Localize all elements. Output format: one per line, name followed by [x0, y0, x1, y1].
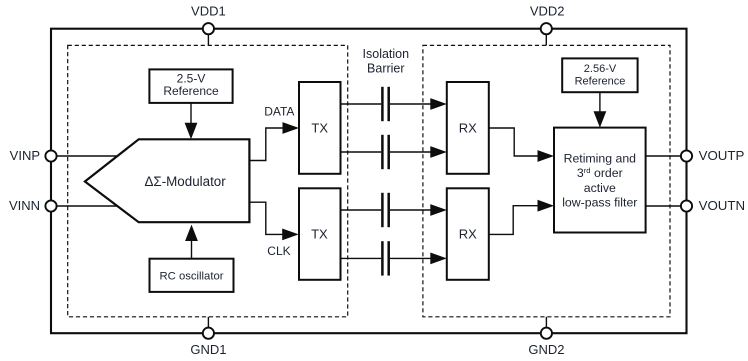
block: 2.5-V reference U2	[149, 69, 232, 103]
wire channel 2 left segment	[341, 151, 382, 153]
wire GND2 stub	[545, 317, 547, 327]
svg-text:VDD1: VDD1	[191, 4, 226, 19]
label: Isolation Barrier	[363, 47, 410, 76]
wire channel 2 right segment (arrow into RX1)	[390, 146, 447, 158]
wire reference to modulator (arrow down)	[185, 103, 198, 139]
block: RC oscillator U3	[150, 259, 234, 292]
block: receiver RX2	[447, 188, 489, 279]
svg-text:CLK: CLK	[267, 244, 290, 258]
pin VOUTP	[681, 148, 745, 163]
wire channel 4 right segment (arrow into RX2)	[390, 253, 447, 265]
wire RX2 to filter (arrow)	[489, 200, 554, 235]
pin VDD1	[191, 4, 226, 35]
pin VINN	[9, 198, 57, 213]
block: transmitter TX2	[299, 188, 341, 279]
wire channel 1 right segment (arrow into RX1)	[390, 98, 447, 110]
wire VDD1 stub	[207, 35, 209, 46]
svg-text:Retiming and: Retiming and	[564, 152, 637, 166]
block: transmitter TX1	[299, 82, 341, 174]
svg-text:Reference: Reference	[163, 84, 219, 98]
svg-text:VINP: VINP	[10, 148, 40, 163]
high-side isolation region (left dashed boundary)	[68, 45, 348, 316]
svg-text:TX: TX	[311, 227, 328, 242]
svg-text:low-pass filter: low-pass filter	[562, 195, 637, 209]
capacitor C2 (isolation, channel 2)	[382, 135, 388, 169]
svg-text:Barrier: Barrier	[367, 62, 405, 76]
svg-text:VOUTP: VOUTP	[699, 148, 745, 163]
svg-text:2.56-V: 2.56-V	[584, 63, 617, 75]
wire DATA: modulator to TX1	[249, 104, 299, 160]
svg-text:RX: RX	[459, 227, 477, 242]
capacitor C3 (isolation, channel 3)	[382, 193, 388, 227]
capacitor C4 (isolation, channel 4)	[382, 241, 388, 275]
pin GND2	[528, 328, 564, 358]
block: receiver RX1	[447, 82, 489, 174]
block: 2.56-V reference U4	[562, 58, 637, 92]
pin VOUTN	[681, 198, 745, 213]
wire channel 3 left segment	[340, 209, 381, 211]
svg-text:DATA: DATA	[264, 104, 294, 118]
svg-text:Reference: Reference	[575, 76, 626, 88]
svg-text:VDD2: VDD2	[530, 4, 565, 19]
svg-text:VINN: VINN	[9, 198, 40, 213]
svg-text:ΔΣ-Modulator: ΔΣ-Modulator	[144, 174, 226, 189]
wire RX1 to filter (arrow)	[489, 128, 554, 162]
wire VINP to modulator	[57, 155, 118, 157]
wire VDD2 stub	[545, 35, 547, 46]
svg-text:GND2: GND2	[528, 342, 564, 357]
wire channel 4 left segment	[340, 257, 381, 259]
svg-text:GND1: GND1	[190, 342, 226, 357]
capacitor C1 (isolation, channel 1)	[382, 87, 388, 121]
wire filter to VOUTP	[646, 155, 681, 157]
wire GND1 stub	[207, 317, 209, 327]
wire oscillator to modulator (arrow up)	[185, 225, 198, 259]
pin VINP	[10, 148, 57, 163]
wire channel 1 left segment	[341, 103, 382, 105]
block: delta-sigma modulator U1	[85, 139, 250, 222]
svg-text:Isolation: Isolation	[363, 47, 410, 61]
wire CLK: modulator to TX2	[249, 202, 298, 258]
svg-text:active: active	[584, 181, 616, 195]
svg-text:RC oscillator: RC oscillator	[159, 271, 223, 283]
block: retiming and low-pass filter U5	[554, 128, 646, 233]
svg-text:TX: TX	[311, 120, 328, 135]
low-side isolation region (right dashed boundary)	[423, 45, 670, 316]
wire VINN to modulator	[57, 205, 118, 207]
wire 2.56-V reference to filter (arrow down)	[594, 92, 607, 128]
wire channel 3 right segment (arrow into RX2)	[390, 204, 447, 216]
svg-text:RX: RX	[459, 120, 477, 135]
wire filter to VOUTN	[646, 205, 681, 207]
IC package boundary (outer solid border)	[51, 29, 687, 334]
pin VDD2	[530, 4, 565, 35]
pin GND1	[190, 328, 226, 358]
svg-text:VOUTN: VOUTN	[699, 198, 746, 213]
